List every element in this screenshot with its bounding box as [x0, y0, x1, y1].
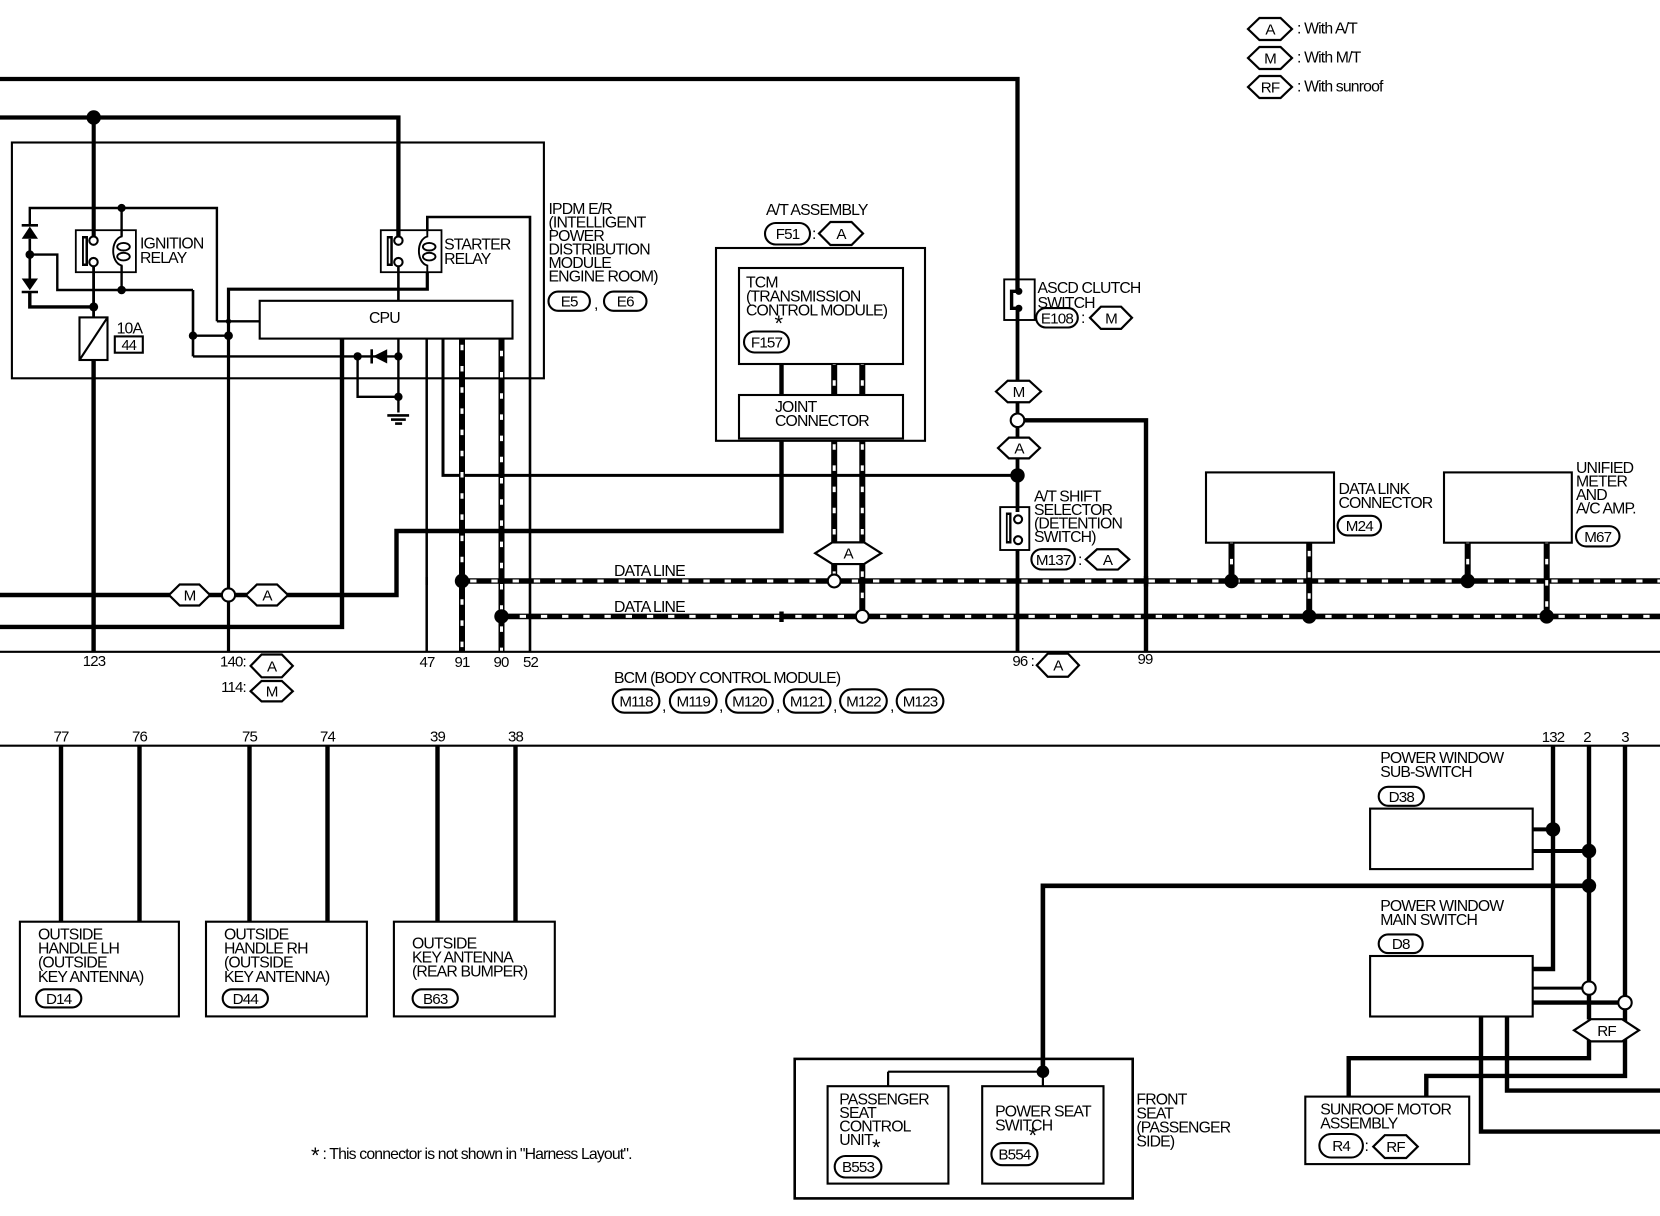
pin 99 label	[1138, 651, 1153, 668]
wire CPU data pin 91 striped	[459, 339, 465, 652]
svg-text:76: 76	[132, 729, 147, 746]
hexagon A for F51	[819, 222, 863, 245]
wire pin 38	[513, 746, 517, 922]
svg-text:,: ,	[833, 698, 837, 715]
svg-text:96 :: 96 :	[1012, 653, 1034, 670]
svg-text:M120: M120	[732, 693, 767, 710]
pin 123 label	[83, 653, 106, 670]
wire diode bottom to fuse node	[30, 292, 94, 307]
svg-text:: With sunroof: : With sunroof	[1297, 79, 1384, 96]
svg-text:E6: E6	[617, 294, 634, 311]
wire internal top rail y208	[30, 208, 217, 321]
power window sub-switch box	[1370, 809, 1533, 870]
diode D3 pointing left	[372, 349, 388, 363]
svg-text:F51: F51	[776, 226, 800, 243]
connector B553	[835, 1156, 882, 1178]
connector F51	[765, 223, 810, 245]
wire meter striped 2	[1544, 543, 1550, 614]
wire to pin 99	[1018, 420, 1147, 652]
connector M119	[670, 689, 717, 712]
svg-text:: With M/T: : With M/T	[1297, 50, 1362, 67]
svg-text:SUB-SWITCH: SUB-SWITCH	[1380, 764, 1472, 781]
A/T assembly outer box	[716, 248, 925, 441]
sunroof motor assembly label	[1320, 1102, 1451, 1133]
BCM label	[614, 670, 841, 687]
selector pin top	[1014, 515, 1022, 523]
svg-text:MAIN SWITCH: MAIN SWITCH	[1380, 912, 1477, 929]
junction dot meter data2	[1540, 609, 1554, 623]
svg-text:SIDE): SIDE)	[1136, 1133, 1174, 1150]
wire TCM to joint connector thick	[779, 364, 783, 395]
asterisk F157	[775, 311, 784, 336]
wire CPU pin to AT selector node	[443, 339, 1014, 476]
connector E5	[549, 292, 590, 311]
pin 140 label	[220, 654, 246, 671]
power window main switch label	[1380, 898, 1504, 929]
junction dot fuse top	[89, 302, 98, 311]
svg-text:M119: M119	[677, 693, 711, 710]
connector D14	[36, 989, 81, 1008]
legend hexagon A with A/T	[1248, 18, 1358, 40]
svg-text:99: 99	[1138, 651, 1153, 668]
CPU label	[369, 310, 400, 327]
svg-text:47: 47	[420, 654, 435, 671]
junction dot D38 pin2	[1582, 844, 1596, 858]
svg-text:ENGINE ROOM): ENGINE ROOM)	[549, 269, 659, 286]
svg-text:RELAY: RELAY	[444, 251, 492, 268]
wire D8 bottom pin a	[1481, 1017, 1660, 1132]
wire diode mid branch	[30, 255, 193, 290]
data link connector box	[1206, 472, 1334, 542]
junction dot DLC data1	[1224, 574, 1238, 588]
pin 38 label	[508, 729, 523, 746]
svg-text:KEY ANTENNA): KEY ANTENNA)	[224, 969, 330, 986]
wire pin 2 down	[1587, 746, 1591, 1020]
wire JC striped 2 down	[859, 440, 865, 611]
front seat label	[1136, 1091, 1230, 1150]
svg-text:D14: D14	[46, 991, 72, 1008]
svg-text:E108: E108	[1041, 310, 1073, 327]
svg-text:CPU: CPU	[369, 310, 400, 327]
svg-text:D44: D44	[233, 991, 259, 1008]
wire to B553	[887, 1072, 889, 1087]
svg-text:RF: RF	[1261, 79, 1280, 96]
wire DLC striped 1	[1229, 543, 1235, 578]
svg-text::: :	[1365, 1138, 1369, 1155]
connector D38	[1379, 787, 1424, 806]
comma 1	[662, 698, 666, 715]
power seat switch label	[995, 1104, 1092, 1135]
diode D2 cathode down	[22, 279, 38, 293]
wire diode link	[28, 239, 31, 279]
comma 4	[833, 698, 837, 715]
svg-text:ASSEMBLY: ASSEMBLY	[1320, 1116, 1399, 1133]
svg-text:M137: M137	[1036, 552, 1071, 569]
connector B554	[991, 1143, 1037, 1165]
wire D38 out2	[1533, 849, 1589, 853]
wire relay control to CPU	[217, 320, 260, 322]
wire CPU data pin 90 striped	[499, 339, 505, 652]
open circle D8 pin3	[1618, 996, 1631, 1009]
passenger seat control unit label	[839, 1091, 929, 1149]
svg-text:(REAR BUMPER): (REAR BUMPER)	[412, 964, 528, 981]
junction dot data2 pin90	[494, 609, 508, 623]
svg-text:DATA LINE: DATA LINE	[614, 563, 685, 580]
comma 5	[890, 698, 894, 715]
svg-text:M: M	[1105, 310, 1117, 327]
data line 2 striped	[502, 614, 1660, 620]
pin 75 label	[242, 729, 257, 746]
junction dot coil top	[118, 204, 126, 212]
svg-text:M67: M67	[1584, 529, 1611, 546]
ignition relay pin top	[89, 236, 97, 244]
wire relay switch through fuse	[92, 266, 95, 317]
IPDM E/R label	[549, 201, 659, 286]
data line label 1	[614, 563, 685, 580]
hexagon A for 96	[1037, 654, 1079, 677]
connector M123	[897, 689, 944, 712]
hexagon RF for R4	[1373, 1135, 1418, 1158]
comma between E5 E6	[594, 296, 598, 313]
starter relay coil	[419, 230, 436, 272]
wire ASCD down	[1016, 308, 1020, 414]
svg-text:3: 3	[1621, 729, 1629, 746]
svg-text:*: *	[311, 1143, 320, 1168]
colon R4	[1365, 1138, 1369, 1155]
wire pin 76	[137, 746, 141, 922]
svg-text:B554: B554	[998, 1147, 1030, 1164]
hexagon A on data wires	[815, 542, 881, 564]
svg-text:D38: D38	[1389, 789, 1415, 806]
outside key antenna box	[394, 922, 555, 1017]
starter relay label	[444, 237, 511, 269]
hexagon A for 140	[251, 655, 293, 678]
colon E108	[1081, 310, 1085, 327]
pin 132 label	[1542, 729, 1565, 746]
svg-text:SWITCH: SWITCH	[995, 1118, 1053, 1135]
svg-text:38: 38	[508, 729, 523, 746]
connector R4	[1319, 1134, 1363, 1158]
hexagon M for E108	[1090, 307, 1132, 329]
connector M137	[1031, 549, 1075, 569]
hexagon M for 114	[251, 681, 293, 701]
svg-text:74: 74	[320, 729, 335, 746]
svg-text:B553: B553	[842, 1159, 874, 1176]
svg-text:D8: D8	[1392, 936, 1410, 953]
wire pin 77	[59, 746, 63, 922]
wire pin 75	[247, 746, 251, 922]
power seat switch box	[982, 1086, 1103, 1183]
svg-text:RF: RF	[1386, 1139, 1405, 1156]
A/T shift selector label	[1034, 489, 1122, 547]
wire DLC striped 2	[1306, 543, 1312, 614]
ignition relay pin bottom	[89, 258, 97, 266]
wire crossing patch TCM over data line 2	[779, 612, 783, 623]
ignition relay coil	[113, 230, 130, 272]
wire to B554	[1042, 1072, 1044, 1087]
open circle AT junction	[1011, 414, 1025, 428]
CPU box	[260, 301, 513, 339]
junction dot diode mid	[26, 250, 35, 259]
junction dot data1 pin91	[455, 574, 469, 588]
wire JC striped 1 down	[831, 440, 837, 576]
asterisk B554	[1029, 1123, 1038, 1148]
pin 3 label	[1621, 729, 1629, 746]
svg-text:,: ,	[890, 698, 894, 715]
wire D38 out1	[1533, 827, 1553, 831]
svg-text:,: ,	[776, 698, 780, 715]
colon F51	[812, 226, 816, 243]
connector M67	[1576, 526, 1620, 546]
connector E6	[604, 292, 647, 311]
connector E108	[1036, 308, 1078, 327]
hexagon A for M137	[1086, 549, 1130, 569]
ground symbol	[387, 415, 409, 423]
svg-text:: With A/T: : With A/T	[1297, 21, 1358, 38]
connector D8	[1379, 934, 1423, 953]
legend hexagon M with M/T	[1248, 47, 1362, 69]
svg-text:91: 91	[455, 654, 470, 671]
legend hexagon RF with sunroof	[1248, 76, 1384, 98]
svg-text:M: M	[266, 684, 278, 701]
connector D44	[223, 989, 268, 1008]
joint connector label	[775, 399, 869, 430]
wire junction to selector	[1016, 475, 1020, 512]
svg-text:M: M	[1013, 384, 1025, 401]
svg-text:SWITCH): SWITCH)	[1034, 529, 1096, 546]
starter relay pin top	[394, 236, 402, 244]
ignition relay label	[140, 236, 204, 267]
hexagon RF sunroof branch	[1574, 1019, 1639, 1041]
svg-text:M118: M118	[619, 693, 653, 710]
pin 39 label	[430, 729, 445, 746]
ignition relay switch bar	[82, 236, 88, 266]
svg-text:DATA LINE: DATA LINE	[614, 599, 685, 616]
wire TCM striped 2	[859, 364, 865, 395]
hexagon A on BCM wire	[246, 585, 288, 606]
svg-text:CONNECTOR: CONNECTOR	[1339, 495, 1433, 512]
wire selector to pin 96	[1016, 550, 1020, 652]
connector F157	[744, 332, 789, 353]
svg-text::: :	[812, 226, 816, 243]
power window sub-switch label	[1380, 750, 1504, 781]
wire coil bottom drop	[120, 266, 122, 291]
pin 2 label	[1583, 729, 1591, 746]
svg-text:M121: M121	[790, 693, 825, 710]
ASCD switch symbol	[1012, 288, 1023, 312]
open circle data line 2 tap	[856, 610, 869, 623]
svg-text:RF: RF	[1597, 1023, 1616, 1040]
hexagon M on BCM wire	[169, 585, 210, 606]
colon M137	[1078, 552, 1082, 569]
connector M122	[840, 689, 887, 712]
starter relay pin bottom	[394, 258, 402, 266]
svg-text:B63: B63	[423, 991, 448, 1008]
TCM label	[746, 275, 888, 320]
wire pin 3 down	[1623, 746, 1627, 1022]
front seat box	[795, 1059, 1133, 1199]
junction dot diode right	[394, 352, 402, 360]
pin 76 label	[132, 729, 147, 746]
hexagon M below ASCD	[996, 381, 1041, 403]
svg-text::: :	[1078, 552, 1082, 569]
svg-text:M: M	[184, 587, 196, 604]
wire seat branch	[888, 1071, 1043, 1073]
ASCD clutch switch label	[1038, 280, 1141, 312]
wire pin 132 to D8	[1533, 746, 1553, 969]
svg-text:90: 90	[494, 654, 509, 671]
junction dot ground node	[394, 393, 402, 401]
lower connector edge line	[0, 745, 1660, 747]
pin 52 label	[523, 654, 538, 671]
ignition relay box	[76, 230, 136, 272]
wire diode row	[193, 336, 398, 357]
pin 47 label	[420, 654, 435, 671]
pin 114 label	[221, 679, 246, 696]
wire RF right branch	[1426, 1038, 1625, 1097]
svg-text:RELAY: RELAY	[140, 250, 188, 267]
svg-text:CONTROL MODULE): CONTROL MODULE)	[746, 303, 888, 320]
svg-text::: :	[1081, 310, 1085, 327]
svg-text:M: M	[1264, 50, 1276, 67]
svg-text:44: 44	[122, 338, 137, 354]
selector pin bottom	[1014, 536, 1022, 544]
svg-text:123: 123	[83, 653, 106, 670]
wire pin 39	[435, 746, 439, 922]
connector M118	[613, 689, 660, 712]
BCM connector edge line	[0, 651, 1660, 653]
open circle data line 1 tap	[828, 575, 841, 588]
unified meter box	[1444, 472, 1572, 542]
open circle D8 pin2	[1582, 981, 1595, 994]
wire fuse to pin 123	[91, 360, 95, 652]
pin 91 label	[455, 654, 470, 671]
svg-text:M123: M123	[903, 693, 938, 710]
wire ignition relay supply from bus 2	[92, 118, 96, 238]
wire thick bus 2 to starter relay	[0, 118, 398, 239]
sunroof motor assembly box	[1305, 1097, 1469, 1165]
junction dot node B	[224, 331, 233, 340]
junction dot AT selector	[1010, 468, 1024, 482]
pin 90 label	[494, 654, 509, 671]
pin 77 label	[54, 729, 69, 746]
IPDM E/R box	[12, 143, 544, 379]
diode D1 cathode up	[22, 225, 38, 239]
asterisk B553	[872, 1135, 881, 1160]
svg-text:52: 52	[523, 654, 538, 671]
TCM box	[739, 268, 903, 364]
svg-text:,: ,	[662, 698, 666, 715]
svg-text:F157: F157	[751, 334, 783, 351]
joint connector box	[739, 395, 903, 439]
wire CPU pin to left bus	[0, 339, 342, 627]
outside handle LH box	[20, 922, 179, 1017]
footnote asterisk	[311, 1143, 632, 1168]
svg-text:CONNECTOR: CONNECTOR	[775, 413, 869, 430]
outside key antenna label	[412, 936, 528, 981]
svg-text:A/T ASSEMBLY: A/T ASSEMBLY	[766, 202, 869, 219]
selector switch bar	[1006, 513, 1012, 544]
svg-text:77: 77	[54, 729, 69, 746]
pin 96 label	[1012, 653, 1034, 670]
wire CPU pin 47	[425, 339, 428, 652]
junction small dot control	[226, 319, 231, 324]
wire thick bus top to ASCD clutch switch	[0, 79, 1018, 291]
connector M121	[784, 689, 831, 712]
A/T shift selector box	[1000, 507, 1029, 550]
wire D8 out pin2	[1533, 987, 1589, 990]
svg-text:2: 2	[1583, 729, 1591, 746]
wire RF left branch	[1349, 1038, 1589, 1097]
connector M24	[1338, 516, 1381, 536]
comma 3	[776, 698, 780, 715]
svg-text:E5: E5	[561, 294, 578, 311]
junction dot DLC data2	[1302, 609, 1316, 623]
wire crossing patch 47 over data line 1	[425, 577, 428, 585]
A/T assembly label	[766, 202, 869, 219]
wire TCM striped 1	[831, 364, 837, 395]
data line label 2	[614, 599, 685, 616]
svg-text:,: ,	[594, 296, 598, 313]
unified meter label	[1576, 460, 1636, 518]
wire seat harness thick	[1043, 886, 1589, 1072]
wire coil top drop	[120, 208, 122, 237]
wire pin 74	[325, 746, 329, 922]
ASCD clutch switch box	[1004, 279, 1034, 320]
fuse 10A	[80, 317, 108, 360]
svg-text:BCM (BODY CONTROL MODULE): BCM (BODY CONTROL MODULE)	[614, 670, 841, 687]
svg-text:75: 75	[242, 729, 257, 746]
passenger seat control unit box	[828, 1086, 949, 1183]
svg-text:A/C AMP.: A/C AMP.	[1576, 501, 1636, 518]
svg-text:10A: 10A	[117, 321, 144, 338]
svg-text:114:: 114:	[221, 679, 246, 696]
wire D8 out pin3	[1533, 1000, 1625, 1004]
pin 74 label	[320, 729, 335, 746]
svg-text:M24: M24	[1346, 518, 1373, 535]
power window main switch box	[1370, 956, 1533, 1017]
wire crossing patch 99 over data line 1	[1144, 576, 1148, 587]
connector M120	[726, 689, 773, 712]
wire starter coil bottom to node B	[229, 272, 428, 652]
wire starter coil top to pin 52	[427, 217, 530, 652]
svg-text:R4: R4	[1332, 1138, 1350, 1155]
svg-text:132: 132	[1542, 729, 1565, 746]
svg-text:,: ,	[719, 698, 723, 715]
svg-text:: This connector is not shown: : This connector is not shown in "Harnes…	[323, 1146, 632, 1163]
wire node link	[193, 335, 229, 337]
fuse label 10A	[117, 321, 144, 338]
svg-text:39: 39	[430, 729, 445, 746]
comma 2	[719, 698, 723, 715]
svg-text:140:: 140:	[220, 654, 246, 671]
fuse number 44 box	[115, 336, 143, 354]
svg-text:UNIT: UNIT	[839, 1132, 874, 1149]
junction dot seat pin2	[1582, 879, 1596, 893]
hexagon A below circle	[998, 438, 1040, 459]
wire ground loop	[358, 356, 399, 396]
wire CPU pin diode branch	[397, 339, 399, 413]
connector B63	[413, 989, 458, 1008]
junction dot node A	[189, 332, 197, 340]
starter relay switch bar	[387, 236, 393, 266]
junction dot meter data1	[1461, 574, 1475, 588]
open circle BCM wire	[222, 588, 235, 601]
starter relay box	[381, 230, 442, 272]
wire joint connector down thick	[0, 440, 782, 595]
wire D8 bottom pin b	[1507, 1017, 1660, 1091]
junction dot on bus 2	[87, 110, 101, 124]
